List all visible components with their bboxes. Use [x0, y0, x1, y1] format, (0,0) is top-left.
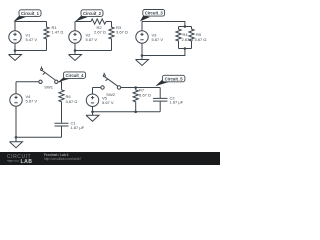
wire V3 top stub — [141, 22, 143, 31]
wire top bar C3 — [179, 26, 192, 28]
ground C3 — [136, 56, 149, 66]
wire V2 bottom stub — [74, 43, 76, 50]
flag pointer Circuit_4 — [58, 77, 70, 82]
wire V1 bottom stub — [14, 43, 16, 50]
svg-text:5.67 V: 5.67 V — [26, 99, 38, 104]
voltage source V1 — [9, 31, 21, 43]
flag label Circuit_2 — [81, 10, 103, 17]
voltage source V5 — [86, 94, 98, 106]
voltage source V3 — [136, 31, 148, 43]
logo CircuitLab — [7, 154, 32, 165]
svg-text:1.67 µF: 1.67 µF — [170, 100, 184, 105]
node junction V5 — [91, 111, 94, 114]
wire top C4 left — [16, 81, 39, 83]
wire top C1 — [15, 21, 47, 23]
resistor R5 — [189, 27, 194, 49]
node junction C1 — [14, 49, 17, 52]
wire top C2 right — [106, 21, 112, 23]
node top C3 — [184, 25, 187, 28]
flag label Circuit_4 — [64, 72, 86, 79]
svg-text:SW2: SW2 — [106, 92, 115, 97]
wire top C2 left — [75, 21, 91, 23]
resistor R7 — [133, 88, 138, 112]
svg-text:Circuit_5: Circuit_5 — [165, 76, 184, 81]
resistor R2 — [91, 19, 106, 24]
voltage source V4 — [10, 94, 22, 106]
svg-text:5.67 V: 5.67 V — [86, 37, 98, 42]
wire V4 top stub — [15, 82, 17, 94]
wire V5 bottom stub — [92, 106, 94, 111]
ground C4 — [10, 137, 23, 147]
svg-text:2.67 Ω: 2.67 Ω — [182, 37, 194, 42]
ground C5 — [86, 112, 99, 122]
node junction C2 — [74, 49, 77, 52]
flag label Circuit_5 — [162, 75, 185, 82]
node junction C4 — [15, 136, 18, 139]
node bottom C3 — [184, 47, 187, 50]
capacitor C2 — [153, 88, 167, 112]
flag pointer Circuit_2 — [75, 16, 88, 22]
resistor R3 — [109, 22, 114, 51]
svg-text:5.47 V: 5.47 V — [26, 37, 38, 42]
capacitor C1 — [55, 123, 69, 137]
node junction C3 — [141, 54, 144, 57]
wire top C4 right — [58, 82, 62, 90]
svg-text:5.67 V: 5.67 V — [102, 100, 114, 105]
wire top C3 — [142, 22, 185, 27]
wire bottom bar C3 — [179, 48, 192, 50]
svg-text:Circuit_1: Circuit_1 — [21, 11, 40, 16]
switch SW1 — [39, 80, 42, 83]
wire V1 top stub — [14, 22, 16, 31]
svg-text:3.67 Ω: 3.67 Ω — [195, 37, 207, 42]
logo traces — [7, 160, 19, 162]
wire V5 top stub — [92, 88, 94, 95]
svg-text:SW1: SW1 — [44, 85, 53, 90]
wire bottom C1 — [15, 50, 47, 52]
wire V4 bottom stub — [15, 106, 17, 137]
svg-text:Circuit_4: Circuit_4 — [66, 73, 85, 78]
wire bottom C2 — [75, 50, 112, 52]
svg-text:5.67 V: 5.67 V — [152, 37, 164, 42]
svg-text:2.67 Ω: 2.67 Ω — [94, 29, 106, 34]
wire V2 top stub — [74, 22, 76, 31]
svg-text:LAB: LAB — [21, 159, 33, 165]
wire bottom C4 — [16, 136, 62, 138]
flag pointer Circuit_1 — [13, 16, 25, 22]
svg-text:Circuit_2: Circuit_2 — [83, 11, 102, 16]
wire top C5 left — [93, 87, 101, 89]
wire V3 bottom stub — [141, 43, 143, 55]
ground C1 — [9, 51, 22, 61]
svg-text:1.47 Ω: 1.47 Ω — [52, 30, 64, 35]
ground C2 — [69, 51, 82, 61]
node top R7 — [134, 86, 137, 89]
svg-text:6.67 Ω: 6.67 Ω — [139, 92, 151, 97]
flag label Circuit_3 — [143, 10, 165, 17]
resistor R4 — [176, 27, 181, 49]
resistor R1 — [44, 22, 49, 51]
switch SW2 — [101, 86, 104, 89]
voltage source V2 — [69, 31, 81, 43]
flag label Circuit_1 — [19, 10, 41, 17]
svg-text:Fernihalt / Lab 0: Fernihalt / Lab 0 — [44, 153, 69, 157]
svg-text:3.67 Ω: 3.67 Ω — [116, 30, 128, 35]
svg-text:1.67 µF: 1.67 µF — [71, 125, 85, 130]
flag pointer Circuit_5 — [155, 79, 169, 86]
wire top C5 right — [121, 87, 161, 89]
svg-text:Circuit_3: Circuit_3 — [145, 11, 164, 16]
wire bottom C3 — [142, 49, 185, 56]
svg-text:3.67 Ω: 3.67 Ω — [66, 99, 78, 104]
resistor R6 — [59, 90, 64, 123]
node junction R7 bottom — [134, 111, 137, 114]
wire bottom C5 — [93, 111, 161, 113]
svg-text:http://circuitlab.com/cw4e7: http://circuitlab.com/cw4e7 — [44, 157, 82, 161]
flag pointer Circuit_3 — [140, 16, 150, 22]
